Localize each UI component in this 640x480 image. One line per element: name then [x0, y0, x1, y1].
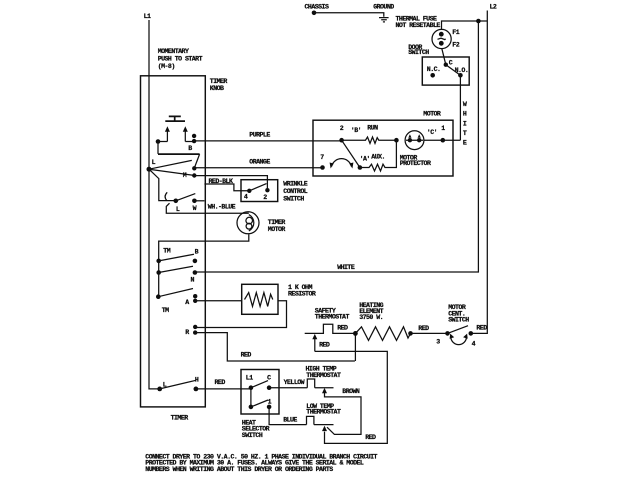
svg-text:PURPLE: PURPLE	[249, 132, 270, 139]
svg-text:TIMER: TIMER	[268, 219, 286, 226]
svg-text:4: 4	[244, 194, 248, 201]
svg-text:3: 3	[436, 338, 440, 345]
wire orange timer M to motor 7	[194, 167, 322, 169]
timer knob label	[210, 78, 228, 92]
resistor label	[288, 284, 316, 298]
cam blade to M	[149, 169, 193, 175]
wire thermal fuse to L2	[442, 21, 488, 30]
svg-text:F1: F1	[452, 29, 459, 36]
door switch blade C to N.O.	[446, 65, 461, 76]
blade TM2 to A	[158, 289, 193, 297]
wire white return from junction down and left to timer N	[195, 21, 479, 272]
svg-text:RUN: RUN	[367, 125, 378, 132]
wire timer motor to TM common	[159, 234, 249, 296]
heating element	[355, 327, 410, 341]
svg-text:TIMER: TIMER	[210, 78, 228, 85]
blade TM to N	[159, 266, 193, 272]
wire resistor to R	[195, 301, 286, 328]
motor terminal A	[358, 165, 363, 170]
svg-text:THERMOSTAT: THERMOSTAT	[315, 314, 350, 321]
svg-text:L: L	[176, 206, 180, 213]
svg-text:H: H	[463, 111, 467, 118]
timer L-H contact	[157, 387, 162, 392]
door switch C terminal	[444, 62, 448, 66]
svg-text:C: C	[449, 60, 453, 67]
svg-text:TM: TM	[163, 248, 170, 255]
timer blade L to W	[176, 194, 196, 201]
wire to timer motor top	[166, 203, 249, 213]
node RED label	[365, 434, 376, 441]
svg-text:THERMOSTAT: THERMOSTAT	[306, 372, 341, 379]
node heater junction dot	[353, 331, 358, 336]
svg-text:A: A	[185, 299, 189, 306]
node RED-BLK label	[209, 178, 233, 185]
svg-text:RED: RED	[215, 379, 226, 386]
svg-text:'A': 'A'	[360, 155, 370, 162]
svg-text:RED: RED	[319, 342, 330, 349]
node ORANGE label	[249, 159, 270, 166]
node BLUE label	[283, 416, 297, 423]
svg-text:MOMENTARY: MOMENTARY	[158, 48, 189, 55]
door switch N.O. terminal	[455, 67, 469, 74]
wrinkle control switch label	[283, 180, 307, 202]
timer H contact	[194, 387, 199, 392]
node WHITE wire label	[337, 264, 355, 271]
safety thermostat	[305, 324, 356, 333]
heating element label	[359, 302, 383, 321]
resistor box	[242, 284, 278, 314]
svg-text:SWITCH: SWITCH	[242, 432, 263, 439]
svg-text:2: 2	[340, 125, 344, 132]
heat selector common link	[250, 388, 252, 407]
svg-text:NOT RESETABLE: NOT RESETABLE	[396, 22, 441, 29]
timer box	[141, 76, 206, 407]
timer TM-B contact	[163, 248, 198, 256]
svg-text:BLUE: BLUE	[283, 416, 297, 423]
node WH.-BLUE label	[208, 203, 236, 210]
wrinkle control switch box	[241, 180, 278, 202]
wire red H to heat selector	[196, 388, 251, 390]
svg-text:T: T	[463, 130, 467, 137]
timer L lower contact	[174, 199, 179, 204]
cam descender to lower contacts	[149, 169, 176, 200]
svg-text:(M-8): (M-8)	[158, 63, 175, 70]
svg-text:4: 4	[472, 340, 476, 347]
svg-text:B: B	[195, 249, 199, 256]
caption	[145, 453, 377, 473]
svg-text:PUSH TO START: PUSH TO START	[158, 56, 203, 63]
svg-text:M: M	[183, 172, 187, 179]
heat selector label	[242, 419, 270, 439]
svg-text:W: W	[193, 205, 197, 212]
svg-text:L2: L2	[490, 4, 497, 11]
node BROWN label	[342, 388, 360, 395]
svg-text:PROTECTOR: PROTECTOR	[400, 160, 431, 167]
node B label	[188, 145, 192, 152]
svg-text:3750 W.: 3750 W.	[359, 314, 383, 321]
start contact left	[156, 139, 161, 144]
svg-text:H: H	[195, 377, 199, 384]
motor terminal 2	[339, 138, 344, 143]
wrinkle switch blade	[249, 184, 266, 191]
node motor junction dot	[394, 138, 399, 143]
svg-text:B: B	[188, 145, 192, 152]
node heater right dot	[408, 331, 413, 336]
wire protector to motor 1	[424, 139, 443, 141]
svg-text:GROUND: GROUND	[373, 3, 394, 10]
svg-text:RED: RED	[476, 324, 487, 331]
svg-text:SWITCH: SWITCH	[448, 317, 469, 324]
timer cam bar	[158, 153, 200, 155]
high temp thermostat	[307, 379, 333, 388]
wire L1 vertical	[149, 20, 158, 389]
svg-text:WRINKLE: WRINKLE	[283, 180, 307, 187]
heat selector C terminal	[267, 375, 271, 382]
wire chassis to ground	[314, 13, 384, 17]
wrinkle switch terminal 2	[265, 188, 269, 192]
wire heater to cent switch 3	[411, 332, 448, 334]
node PURPLE label	[249, 132, 270, 139]
svg-text:N: N	[191, 276, 195, 283]
timer M contacts	[192, 166, 196, 170]
wrinkle switch terminal 4	[247, 189, 251, 193]
svg-text:ORANGE: ORANGE	[249, 159, 270, 166]
push to start button	[165, 116, 185, 121]
svg-text:L1: L1	[246, 375, 253, 382]
svg-text:F2: F2	[452, 42, 459, 49]
cent switch blade	[448, 326, 469, 334]
node CHASSIS label	[305, 3, 329, 10]
svg-text:THERMOSTAT: THERMOSTAT	[306, 409, 341, 416]
svg-text:R: R	[185, 329, 189, 336]
motor centrifugal arc	[330, 159, 354, 169]
thermal fuse F1/F2	[432, 29, 460, 48]
svg-text:N.C.: N.C.	[427, 66, 441, 73]
wire L2 vertical bus	[471, 11, 488, 334]
wire fuse to door switch C	[442, 49, 446, 65]
node RED label	[241, 352, 252, 359]
svg-text:RED: RED	[241, 352, 252, 359]
cent switch terminal 3	[445, 331, 450, 336]
svg-text:TIMER: TIMER	[171, 415, 189, 422]
heat selector lower contact	[249, 405, 254, 410]
node YELLOW label	[284, 379, 305, 386]
wire A to resistor	[195, 300, 242, 302]
heat selector blade L1-C	[251, 381, 268, 388]
svg-text:NUMBERS WHEN WRITING ABOUT THI: NUMBERS WHEN WRITING ABOUT THIS DRYER OR…	[145, 466, 333, 473]
ground symbol	[379, 18, 389, 22]
heat selector terminal 1	[268, 398, 272, 405]
svg-text:I: I	[463, 120, 467, 127]
svg-text:SWITCH: SWITCH	[408, 49, 429, 56]
cam blade to upper corner	[149, 160, 192, 169]
wire yellow C to high temp thermostat	[269, 387, 307, 389]
motor aux winding	[360, 140, 397, 171]
svg-text:BROWN: BROWN	[342, 388, 360, 395]
door switch box	[422, 57, 469, 85]
svg-text:'C': 'C'	[427, 129, 437, 136]
motor terminal 1 'C'	[427, 125, 446, 136]
svg-text:SWITCH: SWITCH	[283, 196, 304, 203]
svg-text:MOTOR: MOTOR	[268, 226, 286, 233]
svg-text:WHITE: WHITE	[337, 264, 355, 271]
cent switch arc	[450, 334, 468, 345]
node L2 label	[490, 4, 497, 11]
timer L pivot dot	[147, 167, 152, 172]
resistor element	[245, 293, 273, 307]
wire junction drop	[354, 333, 356, 361]
safety thermostat label	[315, 307, 350, 320]
start contact B dots	[192, 134, 196, 138]
node L pivot label	[152, 159, 156, 166]
motor terminal 7	[320, 165, 325, 170]
momentary label	[158, 48, 203, 70]
node RED label	[418, 325, 429, 332]
cent switch terminal 4	[469, 331, 474, 336]
blade TM to B	[159, 254, 194, 261]
svg-text:2: 2	[263, 194, 267, 201]
high temp thermostat label	[306, 365, 341, 379]
high temp arrow	[322, 388, 327, 393]
wire red-blk M to wrinkle switch 2	[194, 176, 267, 191]
timer W contact	[192, 199, 197, 204]
thermal fuse label	[396, 16, 441, 29]
door switch N.C. terminal	[427, 66, 441, 73]
wire motor 1 to white	[443, 139, 461, 141]
timer TM-N contact	[156, 270, 161, 275]
svg-text:WH.-BLUE: WH.-BLUE	[208, 203, 236, 210]
node chassis terminal dot	[312, 11, 317, 16]
svg-text:CHASSIS: CHASSIS	[305, 3, 329, 10]
svg-text:KNOB: KNOB	[210, 85, 224, 92]
motor protector	[400, 131, 431, 167]
svg-text:RED: RED	[365, 434, 376, 441]
wire red R to safety thermostat junction	[195, 333, 355, 361]
svg-text:1: 1	[268, 398, 272, 405]
timer A contacts	[193, 294, 197, 298]
motor cent switch label	[448, 304, 469, 323]
cam follower curl	[165, 192, 167, 200]
svg-text:YELLOW: YELLOW	[284, 379, 305, 386]
svg-text:CONTROL: CONTROL	[283, 188, 307, 195]
safety thermostat arrow	[312, 334, 317, 339]
blade L to H	[160, 380, 196, 389]
wire W stub	[194, 200, 204, 202]
node RED label	[476, 324, 487, 331]
svg-text:AUX.: AUX.	[371, 153, 385, 160]
node RED label	[215, 379, 226, 386]
wire purple timer B to motor 2	[195, 140, 342, 142]
timer motor	[237, 212, 285, 234]
svg-text:L: L	[152, 159, 156, 166]
node L1 label	[144, 13, 151, 20]
door switch label	[408, 44, 429, 56]
wire start contacts	[158, 142, 194, 154]
svg-text:7: 7	[320, 154, 324, 161]
node RED label	[337, 325, 348, 332]
node GROUND label	[373, 3, 394, 10]
motor box	[313, 120, 453, 176]
push button arrows	[165, 126, 188, 141]
wire wrinkle 4 to timer	[204, 184, 249, 191]
svg-text:RED: RED	[337, 325, 348, 332]
svg-text:MOTOR: MOTOR	[423, 111, 441, 118]
heat selector switch box	[241, 370, 279, 415]
svg-text:L1: L1	[144, 13, 151, 20]
motor run winding	[367, 125, 378, 132]
timer label	[171, 415, 189, 422]
wire red bypass to low temp	[315, 351, 388, 443]
svg-text:RESISTOR: RESISTOR	[288, 290, 316, 297]
node WHITE vertical label	[463, 101, 467, 147]
wire brown from high temp	[325, 393, 362, 435]
svg-text:E: E	[463, 140, 467, 147]
red arrow at low temp thermostat	[322, 426, 327, 431]
svg-text:TM: TM	[162, 307, 169, 314]
svg-text:RED: RED	[418, 325, 429, 332]
low temp thermostat	[307, 416, 334, 424]
node RED label	[319, 342, 330, 349]
svg-text:1: 1	[441, 125, 445, 132]
heat selector blade to 1	[251, 400, 268, 407]
cam link to M	[194, 154, 199, 168]
motor label	[423, 111, 441, 118]
wire white N.O. down to motor C	[459, 75, 461, 140]
timer TM2 contact	[162, 307, 169, 314]
wire blue 1 to low temp thermostat	[269, 407, 306, 425]
svg-text:'B': 'B'	[351, 127, 361, 134]
timer R contacts	[193, 325, 197, 329]
low temp thermostat label	[306, 403, 341, 416]
motor blade 2 to A	[342, 140, 360, 167]
heat selector L1 terminal	[246, 375, 253, 382]
node junction dot white/L2	[476, 19, 481, 24]
svg-text:W: W	[463, 101, 467, 108]
